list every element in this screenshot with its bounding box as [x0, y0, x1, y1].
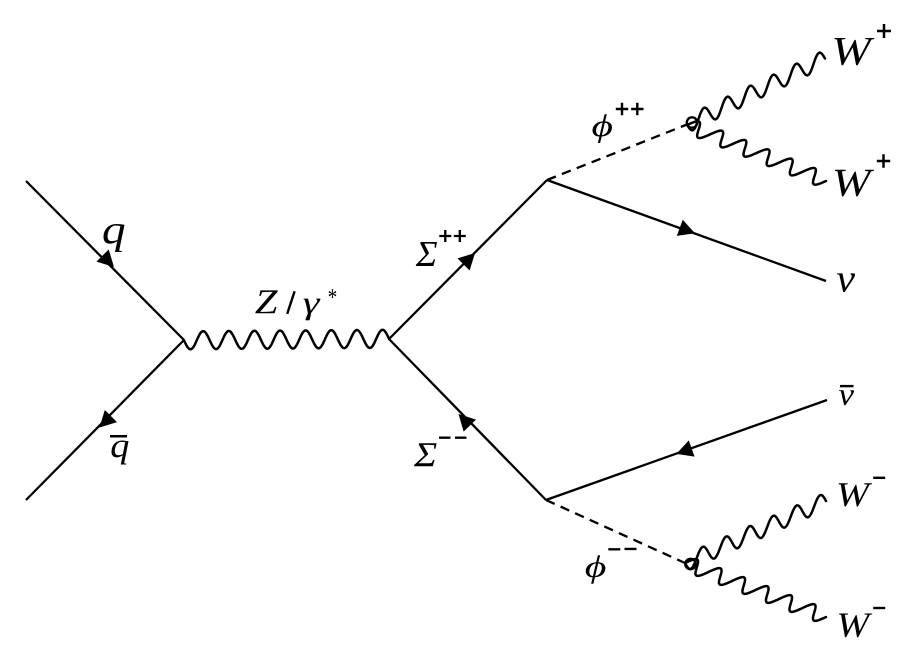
label nubar — [839, 390, 854, 405]
knot loop at phi++ decay vertex — [687, 117, 697, 127]
wire: Sigma-- fermion line — [389, 339, 546, 500]
superscript - of W- bottom — [873, 607, 885, 609]
arrow on quark line q — [96, 249, 114, 267]
wire: phi++ scalar line (dashed) — [547, 125, 687, 181]
label nu — [837, 273, 855, 292]
overline of qbar — [110, 435, 127, 438]
wire: incoming antiquark line qbar — [26, 340, 184, 500]
label Sigma++ — [416, 242, 437, 266]
label W+ second — [835, 170, 874, 197]
label star superscript — [329, 289, 337, 298]
superscript + of W+ second — [877, 154, 890, 167]
arrow on antiquark line qbar — [100, 410, 118, 428]
wire: Sigma++ fermion line — [389, 180, 547, 339]
label W- third — [839, 483, 872, 506]
label qbar — [112, 441, 129, 465]
superscript -- of Sigma-- — [439, 437, 467, 439]
label Sigma-- — [414, 443, 437, 466]
superscript ++ of phi++ — [616, 103, 644, 115]
wire: W- boson upper (wavy) — [685, 495, 826, 569]
arrow on nubar line — [676, 440, 694, 456]
wire: W+ boson upper (wavy) — [687, 53, 825, 131]
wire: Z/gamma* photon propagator (wavy) — [184, 330, 389, 349]
wire: incoming quark line q — [26, 181, 184, 340]
superscript ++ of Sigma++ — [439, 230, 466, 242]
wire: antineutrino line nubar — [546, 400, 827, 500]
label phi-- — [586, 555, 606, 583]
wire: W+ boson lower (wavy) — [687, 121, 826, 184]
wire: W- boson lower (wavy) — [685, 559, 826, 621]
wire: phi-- scalar line (dashed) — [546, 500, 685, 563]
knot loop at phi-- decay vertex — [685, 559, 695, 569]
label slash of Z/gamma* — [287, 291, 294, 314]
wire: neutrino line nu — [547, 180, 826, 281]
label gamma — [304, 299, 321, 321]
arrow on nu line — [677, 220, 695, 236]
superscript - of W- third — [873, 477, 885, 479]
overline of nubar — [840, 385, 854, 387]
label phi++ — [593, 114, 612, 143]
arrow on Sigma++ line — [457, 253, 475, 271]
label q — [104, 224, 125, 252]
arrow on Sigma-- line — [459, 414, 476, 432]
label W+ top — [834, 38, 874, 65]
label Z — [255, 290, 278, 313]
superscript + of W+ top — [877, 24, 891, 38]
label W- bottom — [839, 614, 872, 638]
superscript -- of phi-- — [608, 548, 636, 551]
